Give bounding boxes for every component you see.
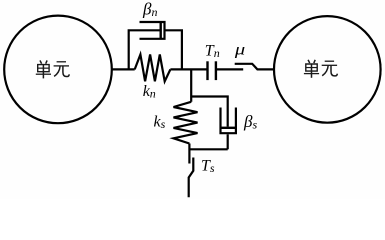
wire: spring kn to capacitor Tn (through node) [170,68,207,70]
mass circle left (单元) [4,16,112,124]
svg-text:kn: kn [143,83,156,101]
wire: capacitor Tn to friction contact μ [216,68,243,70]
combo bottom horizontal [189,148,227,150]
node vertical (junction down to lower branch) [190,69,192,101]
wire: spring ks bottom through bottom horizontal to Ts break [188,144,190,164]
svg-text:Ts: Ts [201,158,215,176]
svg-text:Tn: Tn [205,43,220,61]
capacitor Tn plate 1 [206,61,208,80]
lower combo top horizontal + damper βs rod [191,97,228,127]
spring kn (horizontal zigzag) [135,55,171,82]
label 单元 left [36,60,69,78]
capacitor Tn plate 2 [215,61,217,80]
damper rod right + parallel frame right vertical [165,30,182,69]
label 单元 right [304,60,337,78]
damper βn piston plate [159,23,161,38]
slider Ts offset segment + diagonal + wire down [189,158,194,198]
spring ks (vertical zigzag) [174,102,198,144]
damper βn cylinder (open left: top, right, bottom walls) [140,22,165,39]
mass circle right (单元) [274,16,381,123]
svg-text:ks: ks [154,113,166,130]
damper βs piston plate [221,127,236,129]
svg-text:μ: μ [234,42,246,59]
friction contact μ (offset segment + diagonal) and wire to right circle [235,64,275,70]
damper βs cylinder (open top: left, bottom, right walls) [221,108,236,134]
wire: left circle to spring kn [111,68,134,70]
svg-text:βn: βn [142,0,157,19]
svg-text:βs: βs [243,112,257,132]
parallel frame left vertical + damper rod left [129,30,161,69]
wire: damper βs bottom to combo bottom horizontal [227,134,229,149]
